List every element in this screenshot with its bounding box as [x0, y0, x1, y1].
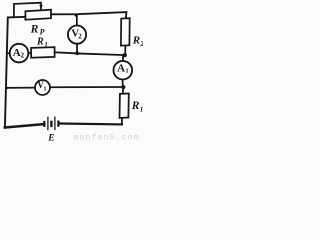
wire A1 bottom stub	[122, 80, 124, 87]
svg-text:1: 1	[125, 67, 128, 74]
ammeter A1	[114, 61, 133, 80]
voltmeter V1	[35, 80, 50, 95]
svg-text:2: 2	[78, 33, 82, 41]
wire left bus	[5, 17, 26, 128]
resistor R1 body (bottom right vertical)	[120, 93, 129, 118]
svg-text:E: E	[47, 134, 54, 143]
wire middle horizontal	[55, 52, 126, 55]
wire R1b top stub	[122, 87, 124, 94]
svg-text:1: 1	[44, 41, 48, 49]
wire A1 top stub	[122, 55, 124, 61]
node A1 bottom junction	[121, 85, 125, 89]
wire V2 bottom stub	[76, 44, 78, 54]
svg-text:A: A	[117, 63, 125, 75]
rheostat RP body	[25, 10, 51, 20]
svg-text:P: P	[40, 28, 45, 37]
svg-text:1: 1	[140, 106, 143, 114]
ammeter A2	[10, 44, 29, 63]
node V1 left junction	[5, 87, 8, 90]
svg-text:A: A	[13, 47, 21, 59]
rheostat slider arrow	[39, 5, 42, 10]
node V2 bottom junction	[75, 51, 79, 55]
wire bottom left segment	[5, 124, 44, 127]
svg-text:2: 2	[21, 52, 25, 60]
svg-text:R: R	[36, 36, 44, 47]
wire top right segment	[51, 12, 126, 18]
resistor R1 body (horizontal)	[31, 47, 54, 58]
svg-text:1: 1	[44, 87, 47, 93]
wire V2 top stub	[76, 14, 78, 26]
svg-text:R: R	[30, 23, 39, 35]
wire R1b bottom stub	[121, 118, 123, 125]
resistor R2 body	[121, 18, 130, 45]
wire A2 to R1	[28, 52, 31, 54]
svg-text:2: 2	[139, 40, 143, 48]
svg-text:manfen5.com: manfen5.com	[74, 132, 140, 142]
wire V1 row left	[6, 87, 35, 89]
battery E plates	[43, 121, 45, 127]
wire bottom right segment	[60, 122, 122, 125]
wire A2 left stub	[7, 52, 10, 54]
wire R2 bottom stub	[124, 45, 126, 55]
wire rheostat slider over-wire	[14, 3, 41, 18]
voltmeter V2	[68, 25, 86, 43]
svg-text:R: R	[132, 35, 140, 47]
node V2 top junction	[75, 14, 78, 17]
wire V1 row right	[50, 86, 124, 88]
svg-text:R: R	[131, 100, 140, 112]
node middle right junction	[123, 53, 127, 57]
